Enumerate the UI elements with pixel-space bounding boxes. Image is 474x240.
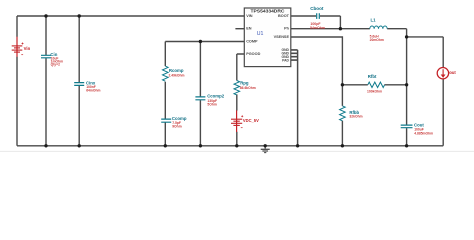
svg-text:VDC_5V: VDC_5V xyxy=(243,118,259,123)
IC U1 GND/PAD pin stubs xyxy=(291,50,298,60)
svg-text:100kOhm: 100kOhm xyxy=(367,89,382,93)
wire BOOT to Cboot xyxy=(291,16,341,29)
wire PGOOD net xyxy=(237,54,245,146)
node rail Cout xyxy=(405,144,408,147)
capacitor Cin xyxy=(41,55,51,58)
wire FB to Rfbb to ground xyxy=(341,85,343,146)
svg-text:Rpg: Rpg xyxy=(240,80,249,85)
node rail Cin xyxy=(44,144,47,147)
inductor L1 xyxy=(370,26,387,29)
node rail GND bracket xyxy=(296,144,299,147)
svg-text:Ccomp: Ccomp xyxy=(172,116,187,121)
resistor Rfbb xyxy=(340,106,346,121)
wire Rcomp/Ccomp branch xyxy=(164,42,166,146)
svg-text:54mOhm: 54mOhm xyxy=(310,26,325,30)
svg-text:Iout: Iout xyxy=(448,70,456,75)
node junction dots xyxy=(44,14,408,147)
svg-text:TPS54334DRC: TPS54334DRC xyxy=(251,8,286,13)
node Vout top junction xyxy=(405,35,408,38)
svg-text:EN: EN xyxy=(246,27,252,31)
wire Iout branch xyxy=(407,37,444,146)
svg-text:U1: U1 xyxy=(257,31,264,37)
node rail VDC xyxy=(235,144,238,147)
svg-text:2.49kOhm: 2.49kOhm xyxy=(169,73,185,77)
resistor Rpg xyxy=(234,81,240,95)
wire FB to Rfbt xyxy=(342,84,406,86)
svg-text:100pF: 100pF xyxy=(310,22,321,26)
svg-text:Vin: Vin xyxy=(24,46,31,51)
svg-text:4.885mOhm: 4.885mOhm xyxy=(414,131,433,135)
source VDC_5V (DC battery) xyxy=(231,110,243,132)
svg-text:PGOOD: PGOOD xyxy=(246,52,260,56)
capacitor Cboot xyxy=(317,13,320,19)
wire Cin branch xyxy=(45,16,47,146)
node rail Ccomp2 xyxy=(199,144,202,147)
svg-text:Cboot: Cboot xyxy=(310,6,324,11)
node Cin/top xyxy=(44,14,47,17)
node rail Cinx xyxy=(78,144,81,147)
svg-text:BOOT: BOOT xyxy=(278,14,290,18)
capacitor Ccomp xyxy=(161,119,171,122)
wire Ccomp2 branch xyxy=(199,42,201,146)
svg-text:COMP: COMP xyxy=(246,39,258,43)
svg-text:64mOhm: 64mOhm xyxy=(86,88,100,92)
wire COMP net xyxy=(165,41,244,43)
source Vin (DC battery) xyxy=(12,37,24,57)
node rail Rfbb xyxy=(341,144,344,147)
resistor Rfbt xyxy=(368,82,385,87)
wire EN stub xyxy=(235,28,244,30)
svg-text:Rfbt: Rfbt xyxy=(368,74,377,79)
source Iout (current source) xyxy=(437,68,448,79)
wire top rail VIN net xyxy=(17,15,244,17)
wire left rail xyxy=(16,16,18,146)
svg-text:PAD: PAD xyxy=(282,58,289,62)
wire bottom ground rail xyxy=(17,145,443,147)
IC U1 TPS54334DRC xyxy=(244,8,290,67)
wire Cinx branch xyxy=(78,16,80,146)
svg-text:86.6kOhm: 86.6kOhm xyxy=(240,86,256,90)
node rail Ccomp xyxy=(164,144,167,147)
node Vout/Rfbt junction xyxy=(405,83,408,86)
node BOOT/PH junction xyxy=(339,27,342,30)
resistor Rcomp xyxy=(163,66,169,81)
svg-text:L1: L1 xyxy=(371,18,377,23)
capacitor Cout xyxy=(401,125,413,128)
node rail ground xyxy=(264,144,267,147)
node FB junction xyxy=(341,83,344,86)
svg-text:9Ohm: 9Ohm xyxy=(172,124,182,128)
svg-text:Rcomp: Rcomp xyxy=(169,68,184,73)
wire VSENSE net xyxy=(291,37,343,85)
wire Vout branch xyxy=(406,37,408,146)
svg-text:Ccomp2: Ccomp2 xyxy=(207,93,225,98)
wire GND bracket to ground rail xyxy=(297,50,299,146)
faint page rule xyxy=(0,150,474,153)
svg-text:VIN: VIN xyxy=(246,14,253,18)
svg-text:32kOhm: 32kOhm xyxy=(349,115,362,119)
wire PH net xyxy=(291,29,407,37)
node COMP junction xyxy=(199,40,202,43)
ground xyxy=(261,146,270,153)
capacitor Cinx xyxy=(74,83,84,86)
svg-text:Qty=2: Qty=2 xyxy=(51,63,61,67)
svg-text:5Ohm: 5Ohm xyxy=(207,103,217,107)
capacitor Ccomp2 xyxy=(195,97,205,100)
svg-text:20mOhm: 20mOhm xyxy=(370,38,384,42)
svg-text:VSENSE: VSENSE xyxy=(274,35,290,39)
node Cinx/top xyxy=(78,14,81,17)
svg-text:Ph: Ph xyxy=(284,27,290,31)
